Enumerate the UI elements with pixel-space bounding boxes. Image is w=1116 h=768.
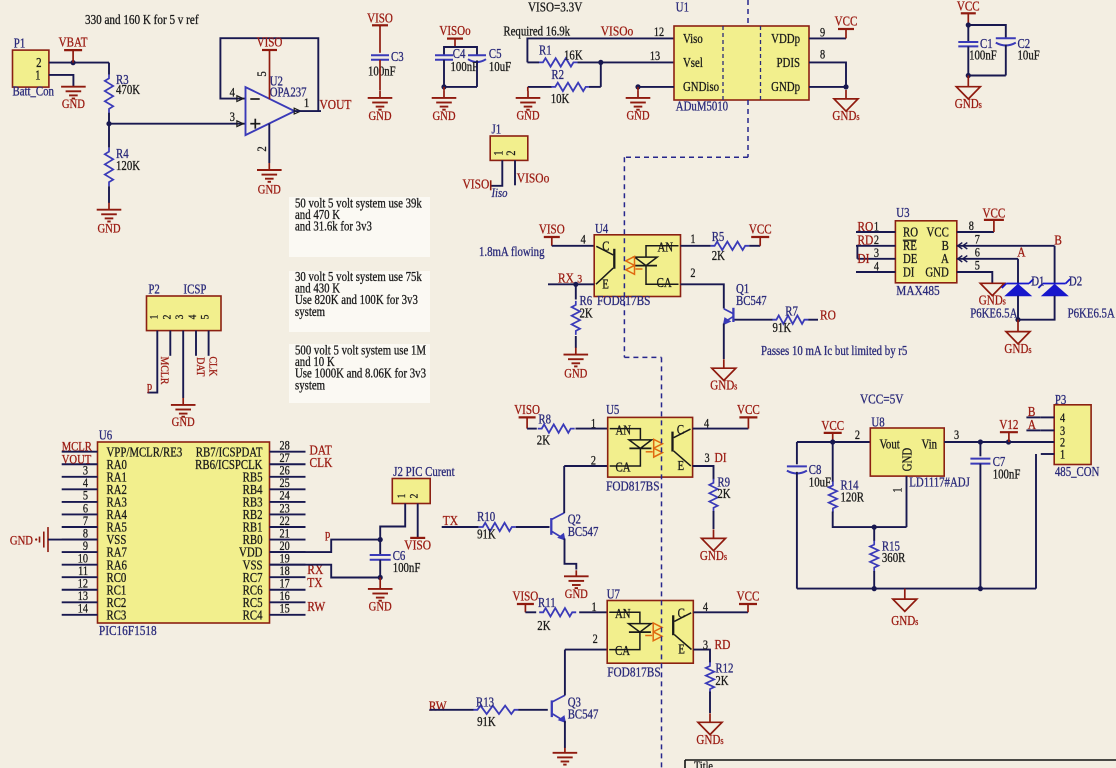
svg-text:CA: CA <box>657 275 672 290</box>
svg-text:5: 5 <box>975 260 980 273</box>
svg-text:VISOo: VISOo <box>439 23 470 38</box>
svg-text:10: 10 <box>78 553 89 566</box>
svg-text:R5: R5 <box>712 229 725 244</box>
svg-text:MCLR: MCLR <box>158 357 171 385</box>
svg-text:23: 23 <box>280 502 291 515</box>
svg-text:U6: U6 <box>99 427 112 442</box>
svg-text:4: 4 <box>874 260 879 273</box>
svg-text:3: 3 <box>705 452 710 465</box>
svg-text:ADuM5010: ADuM5010 <box>676 98 728 113</box>
svg-text:GND: GND <box>369 599 392 614</box>
svg-text:5: 5 <box>254 71 269 76</box>
svg-text:21: 21 <box>280 528 291 541</box>
svg-text:1: 1 <box>35 67 40 82</box>
svg-text:1: 1 <box>149 315 161 320</box>
svg-text:C: C <box>677 422 684 437</box>
svg-text:3: 3 <box>874 247 879 260</box>
svg-text:MAX485: MAX485 <box>896 283 939 298</box>
svg-text:GNDiso: GNDiso <box>683 79 719 94</box>
svg-text:GND: GND <box>432 108 455 123</box>
svg-text:VISO: VISO <box>514 402 540 417</box>
svg-text:J1: J1 <box>492 121 502 136</box>
svg-text:16K: 16K <box>564 47 583 62</box>
svg-text:C: C <box>678 606 685 621</box>
svg-text:J2 PIC Curent: J2 PIC Curent <box>393 464 455 479</box>
svg-text:VCC: VCC <box>983 205 1006 220</box>
svg-text:100nF: 100nF <box>993 466 1021 481</box>
svg-text:and 31.6k for 3v3: and 31.6k for 3v3 <box>295 219 372 234</box>
svg-text:A: A <box>1028 417 1037 432</box>
svg-text:GND: GND <box>925 264 949 279</box>
svg-text:RD: RD <box>715 637 731 652</box>
svg-text:GND: GND <box>516 107 539 122</box>
svg-text:system: system <box>295 304 326 319</box>
svg-text:3: 3 <box>954 429 959 442</box>
svg-text:VCC: VCC <box>957 0 980 14</box>
svg-text:RW: RW <box>429 699 448 714</box>
svg-text:DI: DI <box>715 450 727 465</box>
svg-text:V12: V12 <box>999 417 1018 432</box>
svg-text:2K: 2K <box>717 486 730 501</box>
svg-text:4: 4 <box>1060 412 1065 425</box>
svg-text:27: 27 <box>280 452 291 465</box>
svg-text:1: 1 <box>591 601 596 614</box>
svg-text:1: 1 <box>1060 449 1065 462</box>
svg-text:GNDs: GNDs <box>891 613 919 628</box>
svg-text:Title: Title <box>694 760 713 768</box>
svg-text:p: p <box>147 380 152 393</box>
svg-text:VDDp: VDDp <box>771 31 800 46</box>
svg-text:2K: 2K <box>712 248 725 263</box>
svg-text:GND: GND <box>368 108 391 123</box>
svg-text:2: 2 <box>874 234 879 247</box>
svg-text:VISOo: VISOo <box>601 23 634 38</box>
svg-text:2: 2 <box>505 150 518 155</box>
svg-text:R13: R13 <box>476 694 494 709</box>
svg-text:11: 11 <box>78 565 88 578</box>
svg-text:Vin: Vin <box>922 436 938 451</box>
svg-text:24: 24 <box>280 490 291 503</box>
svg-text:U1: U1 <box>676 0 689 15</box>
svg-text:LD1117#ADJ: LD1117#ADJ <box>909 474 970 489</box>
svg-text:VBAT: VBAT <box>59 35 88 50</box>
svg-text:2: 2 <box>690 267 695 280</box>
svg-text:A: A <box>1017 244 1026 259</box>
svg-text:VCC: VCC <box>821 418 844 433</box>
svg-text:FOD817BS: FOD817BS <box>606 479 659 494</box>
svg-text:91K: 91K <box>477 714 496 729</box>
svg-text:1: 1 <box>874 220 879 233</box>
svg-text:VCC: VCC <box>737 588 760 603</box>
svg-text:12: 12 <box>654 26 665 39</box>
svg-text:1: 1 <box>892 487 905 492</box>
svg-text:TX: TX <box>307 575 323 590</box>
svg-text:RX: RX <box>558 270 575 285</box>
svg-text:P6KE6.5A: P6KE6.5A <box>1068 305 1115 320</box>
svg-text:Passes 10 mA Ic but limited by: Passes 10 mA Ic but limited by r5 <box>761 343 907 358</box>
svg-text:10uF: 10uF <box>489 59 512 74</box>
svg-text:13: 13 <box>650 50 661 63</box>
svg-text:U7: U7 <box>607 586 620 601</box>
svg-text:6: 6 <box>83 502 88 515</box>
svg-text:3: 3 <box>174 315 186 320</box>
svg-text:CA: CA <box>616 459 631 474</box>
svg-text:P6KE6.5A: P6KE6.5A <box>970 305 1017 320</box>
svg-text:2: 2 <box>254 146 269 151</box>
svg-text:D1: D1 <box>1031 273 1044 288</box>
svg-text:VOUT: VOUT <box>320 97 352 112</box>
svg-text:16: 16 <box>280 590 291 603</box>
svg-text:OPA237: OPA237 <box>270 84 307 99</box>
svg-text:GNDp: GNDp <box>771 79 800 94</box>
svg-text:22: 22 <box>280 515 291 528</box>
svg-text:Iiso: Iiso <box>491 185 508 200</box>
svg-text:PIC16F1518: PIC16F1518 <box>99 623 157 638</box>
svg-text:9: 9 <box>83 540 88 553</box>
svg-text:10K: 10K <box>551 91 570 106</box>
svg-text:3: 3 <box>577 272 582 285</box>
svg-text:4: 4 <box>187 314 199 319</box>
svg-text:Vsel: Vsel <box>683 55 703 70</box>
svg-text:2: 2 <box>855 429 860 442</box>
svg-text:U4: U4 <box>595 221 608 236</box>
svg-text:VCC: VCC <box>835 13 858 28</box>
svg-text:E: E <box>678 641 685 656</box>
svg-text:6: 6 <box>975 247 980 260</box>
svg-text:VCC: VCC <box>737 402 760 417</box>
svg-text:C3: C3 <box>391 49 404 64</box>
svg-text:2: 2 <box>162 315 174 320</box>
svg-text:4: 4 <box>230 84 235 99</box>
svg-text:AN: AN <box>658 239 674 254</box>
svg-text:360R: 360R <box>882 550 906 565</box>
svg-text:R7: R7 <box>785 303 798 318</box>
svg-text:5: 5 <box>83 490 88 503</box>
svg-text:4: 4 <box>581 234 586 247</box>
svg-text:4: 4 <box>703 601 708 614</box>
svg-text:1.8mA flowing: 1.8mA flowing <box>479 244 545 259</box>
svg-text:VISO: VISO <box>404 537 431 552</box>
svg-text:GNDs: GNDs <box>832 108 860 123</box>
svg-text:RW: RW <box>307 599 326 614</box>
svg-text:GNDs: GNDs <box>1004 341 1032 356</box>
svg-text:Required 16.9k: Required 16.9k <box>503 23 571 38</box>
svg-text:4: 4 <box>704 418 709 431</box>
svg-text:GND: GND <box>258 181 281 196</box>
svg-text:RC4: RC4 <box>243 607 263 622</box>
svg-text:91K: 91K <box>773 320 792 335</box>
svg-text:AN: AN <box>615 606 631 621</box>
svg-text:2: 2 <box>593 633 598 646</box>
svg-text:330 and 160 K for 5 v ref: 330 and 160 K for 5 v ref <box>85 12 199 27</box>
svg-text:GND: GND <box>565 586 588 601</box>
svg-text:100nF: 100nF <box>451 59 479 74</box>
svg-text:12: 12 <box>78 578 89 591</box>
svg-text:100nF: 100nF <box>969 47 997 62</box>
svg-text:ICSP: ICSP <box>184 281 207 296</box>
svg-text:1: 1 <box>690 233 695 246</box>
svg-text:C: C <box>602 238 609 253</box>
svg-text:CA: CA <box>615 643 630 658</box>
svg-text:GNDs: GNDs <box>955 96 983 111</box>
svg-text:P1: P1 <box>14 35 25 50</box>
svg-text:VISO: VISO <box>367 10 393 25</box>
svg-text:8: 8 <box>820 49 825 62</box>
svg-text:2: 2 <box>591 455 596 468</box>
svg-text:2K: 2K <box>537 432 550 447</box>
svg-text:Vout: Vout <box>880 436 901 451</box>
svg-text:system: system <box>295 377 326 392</box>
svg-text:U3: U3 <box>896 205 909 220</box>
svg-text:9: 9 <box>820 27 825 40</box>
svg-text:GNDs: GNDs <box>700 548 728 563</box>
svg-text:VCC=5V: VCC=5V <box>860 391 903 406</box>
svg-text:TX: TX <box>443 513 459 528</box>
svg-text:25: 25 <box>280 477 291 490</box>
svg-text:1: 1 <box>591 418 596 431</box>
svg-text:100nF: 100nF <box>393 560 421 575</box>
svg-text:E: E <box>678 458 685 473</box>
svg-text:18: 18 <box>280 565 291 578</box>
svg-text:VISO: VISO <box>539 222 565 237</box>
svg-text:26: 26 <box>280 465 291 478</box>
svg-text:BC547: BC547 <box>736 293 767 308</box>
svg-text:470K: 470K <box>116 82 140 97</box>
svg-text:Viso: Viso <box>683 31 703 46</box>
svg-text:E: E <box>602 277 609 292</box>
svg-text:3: 3 <box>703 639 708 652</box>
svg-text:p: p <box>325 528 330 541</box>
svg-text:4: 4 <box>83 477 88 490</box>
svg-text:28: 28 <box>280 440 291 453</box>
svg-text:1: 1 <box>492 150 505 155</box>
svg-text:R11: R11 <box>538 595 556 610</box>
svg-text:485_CON: 485_CON <box>1055 464 1100 479</box>
svg-text:2K: 2K <box>715 673 728 688</box>
svg-text:VISO: VISO <box>257 35 283 50</box>
svg-text:3: 3 <box>230 109 235 124</box>
svg-text:DI: DI <box>903 264 914 279</box>
svg-text:7: 7 <box>975 233 980 246</box>
svg-text:DI: DI <box>857 251 869 266</box>
svg-text:GND: GND <box>564 366 587 381</box>
svg-text:91K: 91K <box>477 527 496 542</box>
svg-text:B: B <box>1054 233 1062 248</box>
svg-text:FOD817BS: FOD817BS <box>607 664 660 679</box>
svg-text:2K: 2K <box>537 618 550 633</box>
svg-text:15: 15 <box>280 603 291 616</box>
svg-text:RO: RO <box>820 307 836 322</box>
svg-text:VCC: VCC <box>749 222 772 237</box>
svg-text:13: 13 <box>78 590 89 603</box>
svg-text:1: 1 <box>396 494 408 499</box>
svg-text:GND: GND <box>97 221 120 236</box>
svg-text:R1: R1 <box>539 42 552 57</box>
svg-text:17: 17 <box>280 578 291 591</box>
svg-text:CLK: CLK <box>310 455 334 470</box>
svg-text:7: 7 <box>83 515 88 528</box>
svg-text:GNDs: GNDs <box>710 378 738 393</box>
svg-text:VISO=3.3V: VISO=3.3V <box>528 0 582 15</box>
svg-text:BC547: BC547 <box>568 524 599 539</box>
svg-text:D2: D2 <box>1069 273 1082 288</box>
svg-text:1: 1 <box>304 95 309 110</box>
svg-text:5: 5 <box>200 315 212 320</box>
svg-text:R10: R10 <box>477 509 495 524</box>
svg-text:120K: 120K <box>116 158 140 173</box>
svg-text:DAT: DAT <box>194 357 207 376</box>
svg-text:CLK: CLK <box>206 357 219 377</box>
svg-text:GNDs: GNDs <box>696 732 724 747</box>
svg-text:10uF: 10uF <box>1018 47 1041 62</box>
svg-text:R2: R2 <box>551 67 564 82</box>
svg-text:GND: GND <box>62 96 85 111</box>
svg-text:VISO: VISO <box>463 176 490 191</box>
svg-text:2: 2 <box>409 494 421 499</box>
svg-text:U5: U5 <box>606 402 619 417</box>
svg-text:AN: AN <box>616 422 632 437</box>
svg-text:RC3: RC3 <box>107 607 127 622</box>
svg-text:Batt_Con: Batt_Con <box>13 83 54 98</box>
svg-text:VOUT: VOUT <box>62 451 92 466</box>
svg-text:100nF: 100nF <box>368 63 396 78</box>
svg-text:2K: 2K <box>580 305 593 320</box>
svg-text:VISO: VISO <box>512 588 538 603</box>
svg-text:14: 14 <box>78 603 89 616</box>
svg-text:GND: GND <box>172 414 195 429</box>
svg-text:3: 3 <box>83 465 88 478</box>
svg-text:PDIS: PDIS <box>777 55 800 70</box>
svg-text:120R: 120R <box>841 489 865 504</box>
svg-text:BC547: BC547 <box>568 707 599 722</box>
svg-text:GND: GND <box>626 107 649 122</box>
svg-text:P2: P2 <box>148 281 159 296</box>
svg-text:GND: GND <box>899 448 914 472</box>
svg-text:GND: GND <box>10 533 33 548</box>
svg-text:VISOo: VISOo <box>517 170 550 185</box>
